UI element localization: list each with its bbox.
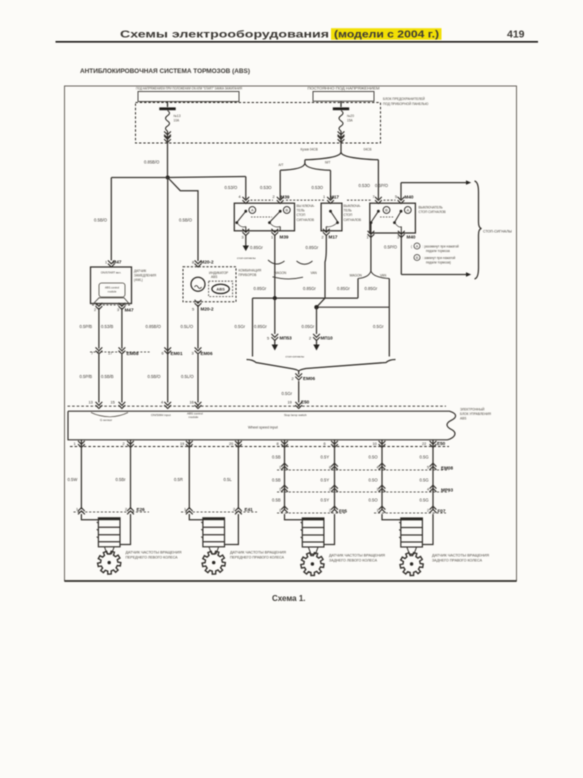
node: junction lower bus	[314, 305, 318, 309]
wire: M40 pin5 to stop signals arrow	[401, 180, 471, 199]
connector E41	[181, 507, 257, 515]
wire: junction to M39 pin 4	[168, 177, 246, 200]
svg-text:0.5Gr: 0.5Gr	[235, 324, 246, 329]
node: A/T - M/T split	[260, 160, 331, 199]
wire: fuse20 down, body splice 04CB	[301, 131, 379, 199]
svg-text:№13: №13	[174, 114, 181, 118]
fuse №13 10A	[159, 102, 180, 143]
ABS indicator in combination meter M20-2	[183, 260, 262, 312]
svg-text:Схемы электрооборудования: Схемы электрооборудования	[120, 29, 329, 41]
svg-text:0.5Y: 0.5Y	[321, 498, 330, 503]
svg-text:0.5ЗО: 0.5ЗО	[359, 183, 371, 188]
stop lamp switch M17	[286, 194, 361, 239]
svg-text:0.85Gr: 0.85Gr	[303, 286, 316, 291]
svg-text:1: 1	[184, 507, 186, 511]
svg-text:СТОП-СИГНАЛЫ: СТОП-СИГНАЛЫ	[483, 229, 512, 233]
svg-text:2: 2	[94, 308, 96, 312]
connector МР93	[277, 485, 453, 492]
svg-text:3: 3	[117, 308, 119, 312]
svg-text:1: 1	[367, 235, 369, 239]
svg-text:ON/START вкл.: ON/START вкл.	[101, 271, 122, 275]
svg-text:ABS control: ABS control	[105, 286, 120, 290]
svg-text:ABS: ABS	[211, 275, 217, 279]
svg-text:Wheel speed input: Wheel speed input	[248, 425, 278, 429]
svg-text:3: 3	[397, 235, 399, 239]
wire: M40 pin1 down with wagon/van splice	[337, 235, 389, 307]
ABS control unit (ECU) band	[68, 400, 492, 448]
svg-text:ПОСТОЯННО ПОД НАПРЯЖЕНИЕМ: ПОСТОЯННО ПОД НАПРЯЖЕНИЕМ	[308, 87, 380, 91]
svg-text:М20-2: М20-2	[201, 260, 214, 265]
svg-text:1: 1	[76, 507, 78, 511]
connector EM06 pin3	[192, 347, 213, 356]
svg-text:4: 4	[377, 466, 379, 470]
wire: ECU pin20 to front-right sensor	[224, 440, 239, 509]
svg-text:Е41: Е41	[245, 507, 254, 512]
svg-text:F07: F07	[438, 508, 446, 513]
svg-text:1: 1	[279, 466, 281, 470]
svg-text:3: 3	[242, 235, 244, 239]
svg-text:ВЫКЛЮЧАТЕЛЬ: ВЫКЛЮЧАТЕЛЬ	[419, 205, 443, 209]
wire: fuse13 down to junction	[144, 131, 168, 178]
svg-text:В: В	[416, 256, 419, 260]
svg-text:15: 15	[111, 400, 115, 404]
svg-text:ПЕРЕДНЕГО ЛЕВОГО КОЛЕСА: ПЕРЕДНЕГО ЛЕВОГО КОЛЕСА	[126, 555, 179, 559]
wire: junction down to EM01 / ECU pin 4	[146, 178, 168, 403]
fuse box under dash panel	[136, 97, 430, 143]
svg-text:А: А	[251, 208, 254, 213]
stop lamp switch M40	[347, 194, 446, 239]
svg-text:Схема 1.: Схема 1.	[272, 594, 306, 603]
svg-text:0.5Р/В: 0.5Р/В	[80, 324, 93, 329]
svg-text:0.85В/О: 0.85В/О	[144, 160, 160, 165]
svg-text:0.85В/О: 0.85В/О	[146, 324, 162, 329]
svg-text:15А: 15А	[347, 119, 354, 123]
svg-text:2: 2	[123, 442, 125, 446]
svg-text:ЕМ06: ЕМ06	[201, 351, 213, 356]
svg-text:22: 22	[422, 442, 426, 446]
svg-text:3: 3	[377, 488, 379, 492]
svg-text:0.5В: 0.5В	[272, 498, 281, 503]
svg-text:2: 2	[427, 509, 429, 513]
svg-text:0.5В: 0.5В	[272, 477, 281, 482]
svg-text:АНТИБЛОКИРОВОЧНАЯ СИСТЕМА ТОРМ: АНТИБЛОКИРОВОЧНАЯ СИСТЕМА ТОРМОЗОВ (ABS)	[80, 68, 250, 75]
svg-text:ДАТЧИК ЧАСТОТЫ ВРАЩЕНИЯ: ДАТЧИК ЧАСТОТЫ ВРАЩЕНИЯ	[230, 550, 287, 554]
svg-text:7: 7	[373, 195, 375, 199]
svg-text:0.5Y: 0.5Y	[321, 477, 330, 482]
svg-text:8: 8	[329, 466, 331, 470]
svg-text:2: 2	[125, 507, 127, 511]
svg-text:В: В	[285, 208, 288, 213]
svg-text:0.85Gr: 0.85Gr	[365, 286, 378, 291]
svg-text:0.85Gr: 0.85Gr	[254, 324, 267, 329]
wire: ECU pin6 rear-left sensor	[321, 440, 335, 510]
wire: M17 pin2 down to splice	[306, 235, 327, 298]
svg-text:ПЕРЕДНЕГО ПРАВОГО КОЛЕСА: ПЕРЕДНЕГО ПРАВОГО КОЛЕСА	[230, 555, 285, 559]
svg-text:(4WL): (4WL)	[134, 278, 143, 282]
schematic frame	[65, 86, 517, 581]
node: stop signals brace	[475, 181, 512, 279]
svg-text:М40: М40	[405, 194, 414, 199]
svg-text:СТОП: СТОП	[297, 213, 306, 217]
svg-text:А: А	[406, 208, 409, 213]
svg-text:419: 419	[507, 29, 525, 41]
svg-text:В: В	[385, 208, 388, 213]
svg-text:ON/SWH input: ON/SWH input	[151, 413, 171, 417]
svg-text:0.5О: 0.5О	[369, 477, 379, 482]
svg-text:СТОП: СТОП	[344, 213, 353, 217]
svg-text:module: module	[189, 415, 199, 419]
svg-text:0.5В: 0.5В	[272, 455, 281, 460]
svg-text:5: 5	[427, 466, 429, 470]
svg-text:4: 4	[239, 195, 241, 199]
svg-text:0.5Gr: 0.5Gr	[282, 391, 293, 396]
svg-text:5: 5	[267, 336, 269, 340]
svg-text:7: 7	[91, 352, 93, 356]
connector E26	[74, 507, 150, 515]
connector МП10	[302, 307, 334, 350]
svg-text:(: (	[411, 244, 413, 248]
svg-text:ДАТЧИК ЧАСТОТЫ ВРАЩЕНИЯ: ДАТЧИК ЧАСТОТЫ ВРАЩЕНИЯ	[126, 550, 183, 554]
svg-text:ДАТЧИК ЧАСТОТЫ ВРАЩЕНИЯ: ДАТЧИК ЧАСТОТЫ ВРАЩЕНИЯ	[432, 553, 490, 557]
svg-text:0.85Gr: 0.85Gr	[337, 286, 350, 291]
svg-text:ЕМ01: ЕМ01	[171, 351, 183, 356]
wire: stop signal bus lower	[317, 298, 390, 307]
svg-text:0.5W: 0.5W	[68, 477, 78, 482]
svg-text:0.5ЗО: 0.5ЗО	[260, 185, 272, 190]
svg-text:0.5З/В: 0.5З/В	[101, 324, 114, 329]
svg-text:10А: 10А	[174, 119, 181, 123]
svg-text:19: 19	[288, 400, 292, 404]
wire labels above M40	[359, 183, 389, 188]
svg-text:: разомкнут при нажатой: : разомкнут при нажатой	[423, 244, 459, 248]
svg-text:ЗАДНЕГО ПРАВОГО КОЛЕСА: ЗАДНЕГО ПРАВОГО КОЛЕСА	[432, 558, 483, 562]
svg-text:0.5L/О: 0.5L/О	[181, 374, 194, 379]
svg-text:(модели с 2004 г.): (модели с 2004 г.)	[334, 30, 439, 41]
svg-text:ПОД ПРИБОРНОЙ ПАНЕЛЬЮ: ПОД ПРИБОРНОЙ ПАНЕЛЬЮ	[383, 102, 429, 106]
svg-text:М20-2: М20-2	[201, 307, 214, 312]
svg-text:20: 20	[229, 442, 233, 446]
svg-text:F05: F05	[339, 508, 347, 513]
svg-text:ДАТЧИК: ДАТЧИК	[134, 269, 146, 273]
svg-text:А: А	[416, 245, 419, 249]
connector EM08 row 2	[277, 463, 453, 470]
wire: ECU pin2 to front-left sensor	[116, 440, 131, 509]
svg-text:WAGON: WAGON	[350, 273, 363, 277]
svg-text:0.85Gr: 0.85Gr	[250, 245, 263, 250]
svg-text:2: 2	[329, 488, 331, 492]
svg-text:А/Т: А/Т	[279, 163, 284, 167]
svg-text:1: 1	[271, 235, 273, 239]
svg-text:0.5R: 0.5R	[174, 477, 183, 482]
svg-text:0.85Gr: 0.85Gr	[254, 286, 267, 291]
svg-text:ТЕЛЬ: ТЕЛЬ	[344, 209, 352, 213]
svg-text:13: 13	[89, 400, 93, 404]
stop lamp switch M39	[234, 194, 314, 239]
wire: funnel to EM06 pin2	[235, 298, 396, 402]
svg-text:МП10: МП10	[321, 336, 334, 341]
svg-text:0.5Y: 0.5Y	[321, 455, 330, 460]
svg-text:М/Т: М/Т	[325, 160, 331, 164]
wire: ECU pin1 to front-left sensor	[68, 440, 82, 509]
svg-text:0.85Gr: 0.85Gr	[306, 245, 319, 250]
svg-text:2: 2	[273, 195, 275, 199]
wire: ECU pin10 rear-right sensor	[369, 440, 383, 510]
svg-text:М17: М17	[329, 235, 338, 240]
svg-text:19: 19	[180, 442, 184, 446]
node: power feed constant label	[308, 87, 380, 102]
svg-text:5: 5	[395, 195, 397, 199]
svg-text:16: 16	[190, 400, 194, 404]
svg-text:2: 2	[309, 336, 311, 340]
svg-text:0.5О: 0.5О	[369, 498, 379, 503]
wire: ECU pin8 rear-left sensor	[272, 440, 285, 510]
svg-text:1: 1	[279, 509, 281, 513]
svg-text:Е26: Е26	[137, 507, 146, 512]
connector EM01	[162, 347, 183, 356]
svg-text:МР93: МР93	[441, 487, 453, 492]
svg-text:0.5Р/В: 0.5Р/В	[80, 374, 93, 379]
svg-text:WAGON: WAGON	[274, 271, 287, 275]
wire: M40 pin3 to stop signals arrow	[384, 235, 471, 277]
node A: main junction	[166, 176, 170, 180]
wire: M39 pin1 down with wagon/van splice	[250, 235, 318, 298]
svg-text:0.5Р/О: 0.5Р/О	[384, 245, 398, 250]
svg-text:0.5G: 0.5G	[420, 498, 429, 503]
svg-text:1: 1	[74, 442, 76, 446]
wire: junction to combination meter M20-2	[168, 178, 198, 262]
connector МП53	[254, 298, 292, 350]
svg-text:module: module	[108, 290, 117, 294]
svg-text:стоп-сигналы: стоп-сигналы	[286, 355, 305, 359]
svg-text:0.5ЗО: 0.5ЗО	[312, 185, 324, 190]
svg-text:1: 1	[323, 195, 325, 199]
svg-text:0.5G: 0.5G	[420, 477, 429, 482]
wire: ECU pin19 to front-right sensor	[174, 440, 189, 509]
svg-text:2: 2	[292, 377, 294, 381]
svg-text:педали тормоза): педали тормоза)	[426, 261, 451, 265]
svg-text:ЕМ08: ЕМ08	[441, 465, 453, 470]
svg-text:БЛОК УПРАВЛЕНИЯ: БЛОК УПРАВЛЕНИЯ	[460, 412, 492, 416]
wire: M39 pin3 stop signal stub arrow	[237, 235, 256, 260]
svg-text:СТОП СИГНАЛОВ: СТОП СИГНАЛОВ	[419, 210, 446, 214]
connector EM08	[90, 347, 150, 356]
svg-text:ВЫ КЛЮЧА-: ВЫ КЛЮЧА-	[297, 204, 315, 208]
svg-text:0.5В/О: 0.5В/О	[94, 218, 108, 223]
svg-text:Stop lamp switch: Stop lamp switch	[284, 413, 307, 417]
svg-text:0.5В/В: 0.5В/В	[101, 374, 114, 379]
connector F07	[374, 506, 446, 513]
front right wheel speed sensor	[189, 514, 287, 574]
connector F05	[277, 506, 347, 513]
svg-text:СИГНАЛОВ: СИГНАЛОВ	[297, 218, 315, 222]
wire: M47 pin2 to EM08 to ECU pin13	[80, 308, 99, 403]
wire: M20-2 pin5 to EM06 to ECU pin16	[181, 305, 199, 403]
svg-text:ДАТЧИК ЧАСТОТЫ ВРАЩЕНИЯ: ДАТЧИК ЧАСТОТЫ ВРАЩЕНИЯ	[329, 553, 386, 557]
deceleration sensor M47	[91, 260, 157, 313]
svg-text:СИГНАЛОВ: СИГНАЛОВ	[344, 218, 362, 222]
svg-text:0.5Gr: 0.5Gr	[373, 324, 384, 329]
svg-text:6: 6	[162, 352, 164, 356]
wire: ECU pin22 rear-right sensor	[420, 440, 434, 510]
wire: junction to M47	[94, 178, 168, 261]
svg-text:№20: №20	[347, 114, 354, 118]
svg-text:ЗАДНЕГО ЛЕВОГО КОЛЕСА: ЗАДНЕГО ЛЕВОГО КОЛЕСА	[329, 558, 378, 562]
svg-text:Е50: Е50	[437, 441, 446, 446]
svg-text:ABS: ABS	[216, 287, 225, 292]
svg-text:ЗАМЕДЛЕНИЯ: ЗАМЕДЛЕНИЯ	[134, 274, 157, 278]
svg-text:3: 3	[192, 352, 194, 356]
svg-text:2: 2	[322, 235, 324, 239]
svg-text:МП53: МП53	[280, 336, 293, 341]
legend: switch states	[411, 243, 459, 265]
svg-text:4: 4	[427, 488, 429, 492]
svg-text:КОМБИНАЦИЯ: КОМБИНАЦИЯ	[239, 269, 262, 273]
svg-text:ЭЛЕКТРОННЫЙ: ЭЛЕКТРОННЫЙ	[460, 407, 485, 411]
svg-text:G sensor: G sensor	[100, 418, 112, 422]
rear right wheel speed sensor	[382, 514, 490, 576]
svg-text:ЕМ06: ЕМ06	[303, 376, 315, 381]
svg-text:5: 5	[192, 307, 194, 311]
svg-text:0.5L/О: 0.5L/О	[181, 324, 194, 329]
svg-text:0.5В/О: 0.5В/О	[148, 374, 162, 379]
svg-text:17: 17	[108, 352, 112, 356]
svg-text:ABS: ABS	[460, 417, 466, 421]
svg-text:ТЕЛЬ: ТЕЛЬ	[297, 209, 305, 213]
wire: M47 pin3 to EM08 to ECU pin15	[101, 308, 122, 403]
svg-text:0.05Gr: 0.05Gr	[302, 324, 315, 329]
svg-text:: замкнут при нажатой: : замкнут при нажатой	[423, 256, 456, 260]
svg-text:VAN: VAN	[311, 271, 318, 275]
svg-text:М47: М47	[125, 307, 134, 312]
svg-text:0.5Р/О: 0.5Р/О	[375, 183, 389, 188]
rear left wheel speed sensor	[285, 514, 386, 576]
svg-text:4: 4	[161, 400, 163, 404]
svg-text:ПОД НАПРЯЖЕНИЕМ ПРИ ПОЛОЖЕНИИ: ПОД НАПРЯЖЕНИЕМ ПРИ ПОЛОЖЕНИИ ON ИЛИ "ST…	[136, 87, 243, 91]
svg-text:Кузов 04СВ: Кузов 04СВ	[301, 148, 318, 152]
wire: stop signal bus upper	[253, 297, 359, 299]
svg-text:04СВ: 04СВ	[364, 148, 372, 152]
front left wheel speed sensor	[81, 514, 182, 574]
svg-text:1: 1	[377, 509, 379, 513]
svg-text:2: 2	[329, 509, 331, 513]
svg-text:ЕМ08: ЕМ08	[127, 351, 139, 356]
svg-text:0.5З/О: 0.5З/О	[225, 185, 239, 190]
svg-text:ПРИБОРОВ: ПРИБОРОВ	[239, 273, 257, 277]
svg-text:8: 8	[192, 260, 194, 264]
svg-text:М39: М39	[280, 235, 289, 240]
node: junction M39/bus	[273, 296, 277, 300]
svg-text:6: 6	[324, 442, 326, 446]
svg-text:М40: М40	[407, 235, 416, 240]
svg-text:БЛОК ПРЕДОХРАНИТЕЛЕЙ: БЛОК ПРЕДОХРАНИТЕЛЕЙ	[383, 97, 425, 101]
fuse №20 15A	[333, 102, 354, 143]
header rule	[56, 28, 539, 42]
svg-text:0.5В/О: 0.5В/О	[179, 218, 193, 223]
svg-text:0.5Вг: 0.5Вг	[116, 477, 127, 482]
svg-text:10: 10	[373, 442, 377, 446]
svg-text:1: 1	[279, 488, 281, 492]
svg-text:2: 2	[233, 507, 235, 511]
node: power feed ON/START label	[136, 87, 243, 102]
svg-text:VAN: VAN	[380, 273, 387, 277]
svg-text:педали тормоза: педали тормоза	[426, 249, 450, 253]
svg-text:ВЫКЛЮЧА-: ВЫКЛЮЧА-	[344, 204, 361, 208]
svg-text:стоп-сигналы: стоп-сигналы	[237, 256, 256, 260]
svg-text:1: 1	[105, 260, 107, 264]
svg-text:0.5G: 0.5G	[420, 455, 429, 460]
svg-text:0.5L: 0.5L	[224, 477, 233, 482]
svg-text:8: 8	[277, 442, 279, 446]
svg-text:0.5О: 0.5О	[369, 455, 379, 460]
